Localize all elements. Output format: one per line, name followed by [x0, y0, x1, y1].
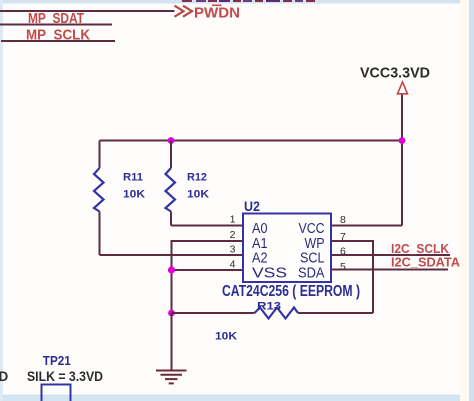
wire VSS pin4: [172, 269, 244, 271]
svg-text:A2: A2: [252, 251, 268, 267]
svg-text:1: 1: [230, 214, 236, 226]
svg-text:A0: A0: [252, 221, 268, 237]
svg-text:SCL: SCL: [300, 251, 325, 267]
svg-text:VCC3.3VD: VCC3.3VD: [360, 64, 430, 81]
svg-text:I2C_SCLK: I2C_SCLK: [391, 242, 449, 256]
svg-text:10K: 10K: [187, 188, 209, 200]
IC U2 body: [243, 214, 331, 283]
wire net MP_SDAT: [0, 24, 112, 26]
wire WP pin7 to R13: [331, 241, 373, 313]
wire A1 pin2 down: [172, 241, 244, 313]
wire A2 pin3 to R11: [100, 254, 244, 256]
resistor R13: [172, 308, 374, 319]
svg-text:8: 8: [340, 214, 346, 226]
svg-text:PWDN: PWDN: [194, 4, 240, 21]
resistor R11: [94, 141, 104, 256]
junction VSS A1: [168, 266, 175, 273]
svg-text:I2C_SDATA: I2C_SDATA: [391, 256, 460, 270]
wire ground drop: [171, 313, 173, 371]
wire net MP_SCLK: [1, 40, 115, 42]
wire net PWDN: [0, 10, 175, 12]
test point TP21 box: [42, 385, 71, 401]
svg-text:10K: 10K: [123, 188, 145, 200]
svg-text:2: 2: [230, 229, 236, 241]
wire VCC vertical: [401, 95, 403, 226]
ground symbol: [156, 371, 187, 384]
junction R13 left: [168, 310, 175, 317]
svg-text:SDA: SDA: [298, 266, 325, 282]
svg-text:D: D: [0, 369, 9, 384]
svg-text:R12: R12: [187, 172, 207, 184]
off-page connector chevron PWDN: [175, 6, 193, 17]
wire SCL pin6: [331, 254, 450, 256]
svg-text:VSS: VSS: [252, 266, 287, 282]
wire VCC top rail: [100, 140, 403, 142]
svg-text:U2: U2: [244, 198, 260, 214]
wire SDA pin5: [331, 269, 448, 271]
svg-text:3: 3: [230, 244, 236, 256]
svg-text:CAT24C256 ( EEPROM ): CAT24C256 ( EEPROM ): [222, 283, 360, 300]
power symbol VCC3.3VD: [398, 82, 408, 94]
svg-text:5: 5: [340, 261, 346, 273]
svg-text:R13: R13: [257, 301, 281, 313]
resistor R12: [166, 141, 176, 226]
svg-text:SILK = 3.3VD: SILK = 3.3VD: [27, 369, 103, 384]
wire VCC pin8: [331, 225, 402, 227]
svg-text:10K: 10K: [215, 331, 237, 343]
net label PWDN: [194, 4, 240, 21]
svg-text:TP21: TP21: [43, 354, 71, 368]
wire A0 pin1 to R12: [171, 225, 243, 227]
svg-text:R11: R11: [123, 172, 143, 184]
svg-text:VCC: VCC: [299, 221, 325, 237]
junction R12 top: [168, 137, 175, 144]
junction VCC drop: [399, 137, 406, 144]
svg-text:4: 4: [230, 259, 236, 271]
